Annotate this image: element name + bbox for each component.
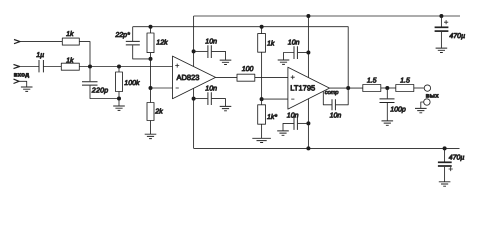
resistor R4 12k	[147, 27, 168, 59]
wire	[262, 98, 288, 100]
svg-text:2k: 2k	[154, 107, 163, 115]
svg-text:22p*: 22p*	[114, 32, 130, 39]
capacitor C3 22p*	[114, 27, 150, 59]
input terminal ground arrow	[14, 79, 20, 83]
output ground terminal	[421, 99, 430, 108]
svg-text:LT1795: LT1795	[290, 84, 315, 93]
svg-text:12k: 12k	[156, 39, 168, 47]
svg-text:100p: 100p	[390, 107, 406, 114]
svg-text:220p: 220p	[91, 87, 109, 94]
svg-text:1k: 1k	[267, 39, 275, 47]
capacitor C7 10n (LT1795 V- decoupling)	[283, 112, 308, 130]
wire	[19, 81, 27, 87]
wire (AD823 V+ feed)	[193, 16, 195, 67]
svg-text:10n: 10n	[205, 86, 217, 93]
junction	[306, 51, 310, 55]
ground (100k/220p)	[113, 99, 125, 111]
output wire	[330, 87, 363, 89]
capacitor C1 1µ	[36, 52, 44, 72]
capacitor C5 10n (AD823 V- decoupling)	[194, 86, 226, 107]
node C junction	[117, 97, 121, 101]
wire (LT1795 V+ feed)	[307, 16, 309, 78]
wire	[79, 66, 172, 68]
ground (C5)	[220, 106, 232, 110]
wire	[20, 41, 62, 43]
svg-text:1k*: 1k*	[267, 113, 277, 121]
svg-text:470µ: 470µ	[449, 154, 465, 161]
svg-text:1k: 1k	[66, 56, 74, 64]
wire (AD823 V- feed)	[193, 88, 195, 148]
ground (100p)	[382, 121, 394, 125]
wire	[381, 87, 396, 89]
node B junction	[117, 65, 121, 69]
feedback rail (net FB)	[133, 27, 349, 88]
svg-text:10n: 10n	[288, 39, 300, 46]
svg-text:10n: 10n	[205, 39, 217, 46]
capacitor C6 10n (LT1795 V+ decoupling)	[284, 39, 309, 60]
resistor R8 1k*	[258, 99, 278, 138]
svg-text:1µ: 1µ	[36, 52, 44, 59]
wire	[151, 87, 173, 89]
resistor R10 1.5	[396, 77, 414, 91]
ground (C10)	[436, 48, 448, 52]
junction	[192, 49, 196, 53]
junction FB rail / R7	[260, 25, 264, 29]
resistor R3 100k	[116, 67, 140, 99]
wire	[43, 66, 61, 68]
op-amp U2 LT1795	[288, 67, 330, 109]
node A junction	[88, 65, 92, 69]
node OUT junction	[346, 86, 350, 90]
node E junction (LT1795 inverting input)	[260, 97, 264, 101]
input terminal IN1 (top arrow)	[14, 40, 20, 44]
capacitor C2 220p	[82, 67, 119, 99]
wire (LT1795 V- feed)	[307, 98, 309, 148]
wire	[150, 59, 152, 88]
svg-text:100: 100	[242, 66, 254, 73]
svg-text:1k: 1k	[66, 30, 74, 38]
svg-text:comp: comp	[325, 90, 339, 96]
ground (output terminal)	[415, 108, 427, 112]
node D junction (AD823 inverting input)	[149, 86, 153, 90]
capacitor C10 470µ (electrolytic, V+)	[435, 16, 466, 48]
resistor R6 100	[216, 66, 288, 81]
junction (bottom rail / C11)	[443, 146, 447, 150]
svg-text:AD823: AD823	[177, 73, 200, 82]
ground (C4)	[220, 60, 232, 64]
resistor R2 1k	[61, 56, 79, 70]
capacitor C11 470µ (electrolytic, V-)	[438, 148, 465, 181]
junction	[306, 121, 310, 125]
capacitor C8 10n (comp network)	[323, 88, 348, 119]
svg-text:100k: 100k	[124, 79, 140, 87]
ground (C6)	[278, 60, 290, 64]
junction (bottom rail)	[306, 146, 310, 150]
svg-text:вход: вход	[14, 73, 30, 79]
resistor R7 1k (LT1795 feedback divider top)	[258, 27, 275, 99]
svg-text:10n: 10n	[287, 112, 299, 119]
svg-text:1.5: 1.5	[400, 77, 410, 84]
ground (2k)	[145, 134, 157, 138]
wire	[79, 42, 90, 67]
junction	[192, 97, 196, 101]
junction (rail)	[306, 14, 310, 18]
top supply rail V+	[194, 15, 460, 17]
capacitor C4 10n (AD823 V+ decoupling)	[194, 39, 226, 60]
junction FB top	[149, 25, 153, 29]
ground (input)	[21, 87, 33, 91]
svg-text:1.5: 1.5	[367, 77, 377, 84]
junction (top rail / C10)	[439, 14, 443, 18]
ground (C7)	[277, 131, 289, 135]
svg-text:470µ: 470µ	[449, 33, 465, 40]
resistor R5 2k	[147, 88, 163, 134]
wire	[20, 66, 39, 68]
output terminal вых	[424, 85, 430, 91]
op-amp U1 AD823	[173, 56, 216, 99]
node F junction	[385, 86, 389, 90]
bottom supply rail V-	[194, 147, 460, 149]
ground (C11)	[439, 182, 451, 186]
resistor R1 1k	[62, 30, 79, 45]
resistor R9 1.5	[363, 77, 381, 91]
capacitor C9 100p	[380, 88, 406, 121]
input terminal IN2 (bottom arrow)	[14, 64, 20, 68]
wire	[414, 87, 424, 89]
ground (1k*)	[252, 138, 271, 142]
junction FB bottom	[149, 57, 153, 61]
svg-text:10n: 10n	[330, 112, 342, 119]
